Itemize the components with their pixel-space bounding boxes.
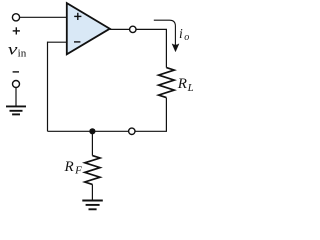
wire: input terminal to op-amp + input [20,16,67,18]
wire: terminal circle to ground [15,88,17,106]
resistor R_L (zigzag) [159,68,175,98]
wire: output terminal to top-right corner and down to R_L [136,29,166,67]
wire: R_L bottom down to bottom-right corner, left to bottom terminal [135,98,166,132]
svg-text:L: L [187,82,193,94]
op-amp − input marking [74,41,80,43]
op-amp U1 (triangle) [67,3,110,54]
wire: op-amp − input to feedback corner [48,41,67,43]
node junction (filled dot) [89,128,95,134]
svg-text:in: in [18,48,27,59]
bottom terminal (open circle) [129,128,135,134]
output terminal (open circle, top) [130,26,136,32]
svg-text:o: o [184,32,189,43]
ground (left, under v_in) [6,106,26,114]
ground (bottom, under R_F) [82,201,103,210]
op-amp + input marking [74,13,81,20]
wire: op-amp output [110,28,130,30]
resistor R_F (zigzag) [85,156,100,185]
label − (source polarity bottom) [13,71,19,73]
wire: R_F bottom to ground [91,184,93,199]
svg-text:v: v [8,41,18,58]
svg-text:i: i [179,26,183,41]
svg-text:R: R [177,76,187,92]
svg-text:R: R [64,159,74,175]
i_o current arrow (curved) [154,20,176,49]
label + (source polarity top) [13,27,20,34]
svg-text:F: F [74,164,82,176]
ground terminal circle (below v_in) [13,81,20,88]
wire: feedback vertical (left side down) [47,42,49,132]
wire: junction down to R_F [91,131,93,155]
input terminal (top-left open circle) [12,14,19,21]
wire: bottom terminal left to junction and to feedback corner [48,130,129,132]
